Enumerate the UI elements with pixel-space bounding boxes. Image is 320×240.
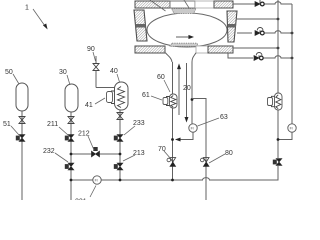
svg-text:FI: FI xyxy=(191,127,194,131)
svg-text:213: 213 xyxy=(133,150,145,157)
line B from right wall xyxy=(236,18,278,20)
valve 80 xyxy=(200,158,204,162)
pipe from vaporizer 40 xyxy=(119,110,121,180)
valve A xyxy=(255,2,260,7)
svg-text:50: 50 xyxy=(5,69,13,76)
bottom gray flange xyxy=(170,43,199,46)
bracket 61 xyxy=(167,97,170,106)
solenoid valve 51 xyxy=(16,136,20,141)
svg-text:51: 51 xyxy=(3,121,11,128)
svg-text:232: 232 xyxy=(43,148,55,155)
chamber ellipse (reaction zone) xyxy=(147,13,227,47)
gas cylinder 30 xyxy=(65,84,78,112)
line A from chamber lid xyxy=(233,3,255,5)
svg-text:FI: FI xyxy=(290,127,293,131)
hand valve col1 xyxy=(19,117,25,124)
flowmeter FI 63 xyxy=(189,124,197,132)
chamber top bar right segment xyxy=(214,1,233,8)
solenoid valve 212 xyxy=(93,147,97,151)
chamber bottom bar right window xyxy=(196,46,208,53)
leader from cut label (susceptor) xyxy=(184,0,200,25)
svg-text:41: 41 xyxy=(85,102,93,109)
svg-text:211: 211 xyxy=(47,121,58,128)
svg-text:30: 30 xyxy=(59,69,67,76)
valve E with actuator xyxy=(254,56,259,61)
chamber bottom bar right xyxy=(208,46,233,53)
return line from flowmeter with arrow xyxy=(179,132,194,139)
valve 70 xyxy=(167,158,171,162)
chamber bottom bar left xyxy=(135,46,165,53)
svg-text:61: 61 xyxy=(142,92,150,99)
tube 20 left wall / down pipe xyxy=(172,62,174,180)
line C from right wall xyxy=(237,32,252,34)
tube 20 right wall xyxy=(191,62,193,124)
node on down pipe xyxy=(171,138,174,141)
bracket 41 xyxy=(112,91,115,104)
solenoid valve 213 xyxy=(114,164,118,169)
heater U60 capsule on tube xyxy=(170,94,178,108)
flow gauge on bus2 xyxy=(288,124,296,132)
chamber right wall xyxy=(227,11,237,42)
flowmeter 231 xyxy=(93,176,101,184)
leader from cut label (lid) xyxy=(150,0,166,11)
hand valve col2 xyxy=(68,117,74,124)
line E xyxy=(228,53,253,58)
pipe from cylinder 50 xyxy=(21,111,23,200)
neck flare to tube xyxy=(166,53,173,62)
right bus 2 xyxy=(291,4,293,124)
chamber left wall xyxy=(134,10,147,41)
svg-text:63: 63 xyxy=(220,114,228,121)
inner down-flow line with arrow xyxy=(186,63,188,118)
hand valve col3 xyxy=(117,113,123,120)
svg-text:20: 20 xyxy=(183,85,191,92)
solenoid valve 233 xyxy=(114,136,118,141)
vaporizer 40 xyxy=(115,82,129,110)
valve C with actuator xyxy=(255,31,260,36)
solenoid valve 232 xyxy=(65,164,69,169)
branch to valve 80 xyxy=(192,99,206,201)
inner up-flow line with arrow xyxy=(178,68,180,115)
valve on right bus xyxy=(273,160,277,165)
pipe from cylinder 30 xyxy=(70,112,72,200)
heater capsule on right bus xyxy=(275,93,283,110)
svg-text:90: 90 xyxy=(87,46,95,53)
chamber lid window xyxy=(170,1,195,8)
svg-text:FI: FI xyxy=(95,179,98,183)
svg-text:80: 80 xyxy=(225,150,233,157)
chamber top bar left segment xyxy=(135,1,170,8)
top gray flange xyxy=(172,9,197,14)
branch line between col2 and col3 xyxy=(71,153,120,155)
svg-text:231: 231 xyxy=(75,199,87,201)
right bus 1 xyxy=(277,0,279,158)
gas cylinder 50 xyxy=(16,83,28,111)
svg-text:40: 40 xyxy=(110,68,118,75)
chamber lid window B xyxy=(195,1,214,8)
carrier line valve 90 xyxy=(95,56,97,64)
svg-text:1: 1 xyxy=(25,5,29,12)
svg-text:60: 60 xyxy=(157,74,165,81)
bottom manifold bus xyxy=(71,166,278,180)
flow arrow inside chamber xyxy=(176,36,190,38)
node on tube right wall xyxy=(191,98,194,101)
solenoid valve 211 xyxy=(65,136,69,141)
line D from bottom bar xyxy=(233,47,278,49)
